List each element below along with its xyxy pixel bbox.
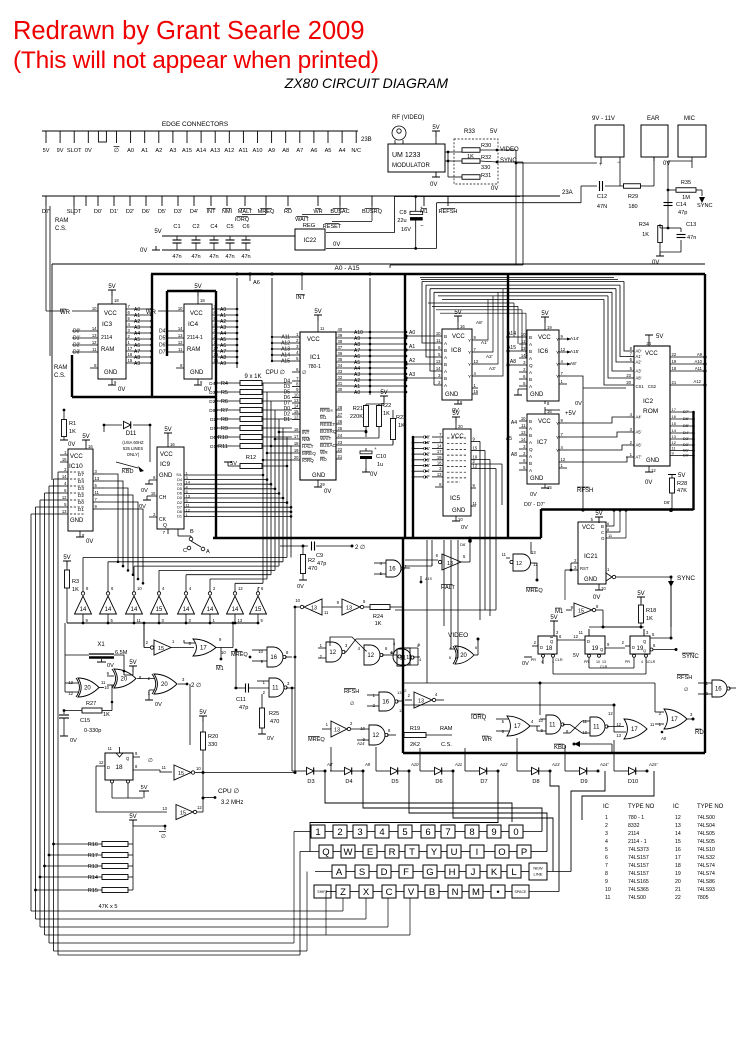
svg-text:1K: 1K [375, 621, 382, 627]
svg-text:D1: D1 [78, 507, 84, 513]
svg-text:0V: 0V [333, 242, 340, 248]
svg-text:M1: M1 [216, 666, 224, 672]
svg-text:VCC: VCC [538, 419, 551, 425]
svg-text:16: 16 [675, 847, 681, 853]
svg-text:9V - 11V: 9V - 11V [592, 116, 615, 122]
svg-text:12: 12 [402, 688, 407, 693]
svg-text:780 - 1: 780 - 1 [628, 815, 644, 821]
svg-text:IC3: IC3 [102, 321, 113, 328]
svg-text:13: 13 [521, 346, 526, 351]
svg-text:RAM: RAM [440, 726, 453, 732]
svg-text:CS2: CS2 [648, 384, 657, 389]
svg-text:4: 4 [605, 839, 608, 845]
svg-text:18: 18 [672, 366, 677, 371]
svg-text:A6': A6' [636, 443, 642, 448]
svg-text:47n: 47n [172, 254, 181, 260]
svg-text:RAM: RAM [55, 218, 68, 224]
svg-text:Y: Y [556, 337, 559, 342]
svg-text:A0: A0 [660, 736, 667, 741]
svg-text:C9: C9 [316, 553, 323, 559]
svg-text:74LS157: 74LS157 [628, 855, 649, 861]
svg-text:VCC: VCC [451, 434, 464, 440]
svg-text:S/L: S/L [176, 473, 182, 477]
svg-text:19: 19 [592, 646, 599, 652]
svg-text:R1: R1 [69, 421, 76, 427]
svg-text:14: 14 [207, 607, 214, 613]
svg-text:15: 15 [156, 607, 163, 613]
svg-text:D3': D3' [73, 350, 80, 356]
svg-text:D7': D7' [683, 409, 689, 414]
svg-text:C.S.: C.S. [55, 226, 67, 232]
svg-text:CPU ∅: CPU ∅ [218, 788, 240, 795]
svg-text:1K: 1K [72, 587, 79, 593]
svg-text:11: 11 [92, 347, 97, 352]
svg-text:5V: 5V [541, 311, 548, 317]
svg-text:R13: R13 [88, 864, 98, 870]
svg-text:NMI: NMI [302, 437, 310, 442]
svg-text:SLOT: SLOT [67, 148, 82, 154]
svg-text:D5': D5' [159, 336, 166, 342]
svg-text:12: 12 [399, 708, 404, 713]
svg-text:11: 11 [400, 656, 407, 662]
svg-text:D6': D6' [683, 416, 689, 421]
svg-text:20: 20 [121, 677, 128, 683]
svg-text:R30: R30 [481, 143, 491, 149]
svg-text:VCC: VCC [70, 454, 83, 460]
svg-text:20: 20 [460, 653, 467, 659]
svg-text:A14: A14 [356, 741, 365, 746]
svg-text:0V: 0V [70, 738, 77, 744]
svg-text:19: 19 [437, 455, 442, 460]
svg-text:D4: D4 [78, 479, 84, 485]
svg-text:12: 12 [92, 340, 97, 345]
svg-text:19: 19 [675, 871, 681, 877]
svg-text:B: B [190, 529, 194, 535]
svg-text:R34: R34 [639, 222, 649, 228]
svg-text:13: 13 [92, 333, 97, 338]
svg-text:11: 11 [272, 686, 279, 692]
svg-text:4: 4 [379, 827, 384, 838]
svg-text:R33: R33 [464, 129, 476, 135]
svg-text:15: 15 [294, 409, 299, 414]
svg-text:14: 14 [294, 404, 299, 409]
svg-text:3: 3 [605, 831, 608, 837]
svg-text:6: 6 [425, 827, 430, 838]
svg-text:10: 10 [92, 306, 97, 311]
svg-text:KBD: KBD [122, 469, 134, 475]
svg-text:A6: A6 [253, 280, 260, 286]
svg-text:0V: 0V [645, 480, 652, 486]
svg-text:0V: 0V [430, 182, 437, 188]
svg-text:30: 30 [338, 387, 343, 392]
svg-text:B: B [601, 524, 604, 529]
svg-text:R4: R4 [221, 381, 228, 387]
svg-text:PR: PR [584, 660, 589, 664]
svg-text:∅: ∅ [161, 833, 166, 840]
svg-text:A3': A3' [489, 366, 496, 371]
svg-text:74LS86: 74LS86 [697, 879, 715, 885]
svg-text:RFSH: RFSH [677, 675, 692, 681]
svg-text:47N: 47N [597, 204, 607, 210]
svg-text:R12: R12 [246, 455, 256, 461]
svg-text:A2': A2' [636, 360, 642, 365]
svg-text:A9: A9 [268, 148, 275, 154]
svg-text:C10: C10 [376, 454, 386, 460]
svg-text:15: 15 [214, 358, 219, 363]
svg-text:0V: 0V [68, 442, 75, 448]
svg-text:IC10: IC10 [69, 463, 83, 470]
svg-text:13: 13 [162, 806, 167, 811]
svg-text:BUSRQ: BUSRQ [320, 429, 337, 434]
svg-text:11: 11 [593, 725, 600, 731]
svg-text:REG: REG [303, 223, 316, 229]
svg-text:0V: 0V [141, 488, 148, 494]
svg-text:13: 13 [334, 728, 340, 734]
svg-text:IORQ: IORQ [471, 715, 487, 721]
svg-text:0: 0 [513, 827, 518, 838]
svg-text:R22: R22 [381, 403, 391, 409]
svg-text:WR: WR [482, 737, 493, 743]
svg-text:RD: RD [695, 730, 704, 736]
svg-text:7: 7 [605, 863, 608, 869]
svg-text:5V: 5V [43, 148, 50, 154]
svg-text:CLR: CLR [600, 665, 608, 669]
svg-text:12: 12 [367, 653, 374, 659]
svg-text:5V: 5V [82, 434, 89, 440]
svg-text:2114-1: 2114-1 [187, 335, 203, 341]
svg-text:11: 11 [320, 326, 325, 331]
svg-text:CPU ∅: CPU ∅ [265, 369, 285, 376]
svg-text:12: 12 [561, 457, 566, 462]
svg-text:19: 19 [547, 325, 552, 330]
svg-text:15: 15 [158, 646, 164, 652]
svg-text:A8': A8' [636, 376, 642, 381]
svg-text:A12: A12 [499, 762, 508, 767]
svg-text:Y: Y [468, 362, 471, 367]
svg-text:12: 12 [99, 760, 104, 765]
svg-text:10: 10 [178, 306, 183, 311]
svg-text:K: K [491, 867, 498, 878]
svg-text:D5: D5 [391, 779, 398, 785]
svg-text:9: 9 [491, 827, 496, 838]
svg-text:C13: C13 [686, 222, 696, 228]
svg-text:•: • [496, 887, 499, 898]
svg-text:C2: C2 [192, 224, 199, 230]
svg-text:INT: INT [302, 430, 310, 435]
svg-text:13: 13 [68, 680, 73, 685]
svg-text:IC: IC [673, 804, 680, 810]
svg-text:IC22: IC22 [304, 238, 317, 244]
svg-text:5V: 5V [194, 284, 201, 290]
svg-text:D6': D6' [664, 500, 670, 505]
svg-text:R23: R23 [396, 415, 406, 421]
svg-text:11: 11 [436, 338, 441, 343]
svg-text:D5: D5 [177, 487, 182, 491]
svg-text:18: 18 [294, 441, 299, 446]
svg-text:1M: 1M [682, 195, 690, 201]
svg-text:M1: M1 [320, 415, 327, 420]
svg-text:25: 25 [338, 426, 343, 431]
svg-text:X1: X1 [97, 642, 105, 648]
svg-text:RST: RST [580, 566, 589, 571]
svg-text:Q: Q [163, 523, 167, 529]
svg-text:0V: 0V [522, 661, 529, 667]
svg-text:IC9: IC9 [160, 461, 171, 468]
svg-text:R2: R2 [308, 558, 315, 564]
svg-text:D: D [540, 645, 543, 650]
svg-text:20: 20 [626, 380, 631, 385]
svg-text:R29: R29 [628, 194, 638, 200]
svg-text:N: N [452, 887, 459, 898]
svg-text:R10: R10 [218, 435, 228, 441]
svg-text:GND: GND [530, 392, 544, 398]
svg-text:CLR: CLR [555, 658, 563, 662]
svg-text:A1: A1 [409, 344, 415, 350]
svg-text:A0': A0' [636, 349, 642, 354]
svg-text:A5': A5' [636, 430, 642, 435]
svg-text:15: 15 [62, 457, 67, 462]
svg-text:13: 13 [311, 606, 317, 612]
svg-text:31: 31 [338, 381, 343, 386]
svg-text:13: 13 [346, 606, 352, 612]
svg-text:WAIT: WAIT [320, 436, 332, 441]
svg-text:5V: 5V [199, 710, 206, 716]
svg-text:VCC: VCC [307, 337, 320, 343]
svg-text:0V: 0V [663, 161, 670, 167]
svg-text:SYNC: SYNC [697, 203, 713, 209]
svg-text:36: 36 [338, 351, 343, 356]
svg-text:11: 11 [650, 722, 655, 727]
svg-text:15: 15 [255, 607, 262, 613]
svg-text:10: 10 [521, 416, 526, 421]
svg-text:7805: 7805 [697, 895, 709, 901]
svg-text:GND: GND [445, 392, 459, 398]
svg-text:D5': D5' [683, 423, 689, 428]
svg-text:B: B [529, 349, 532, 354]
svg-text:Y: Y [556, 362, 559, 367]
svg-text:B: B [529, 419, 532, 424]
svg-text:0V: 0V [652, 260, 659, 266]
svg-text:R28: R28 [677, 481, 687, 487]
svg-text:Y: Y [468, 350, 471, 355]
svg-text:C.S.: C.S. [54, 373, 66, 379]
svg-text:A14': A14' [570, 336, 579, 341]
svg-text:TYPE NO: TYPE NO [628, 804, 655, 810]
svg-text:E: E [367, 847, 373, 858]
svg-text:A4: A4 [511, 420, 517, 426]
svg-text:F: F [403, 867, 409, 878]
svg-text:INT: INT [206, 209, 216, 215]
svg-text:19: 19 [294, 448, 299, 453]
svg-text:PR: PR [625, 660, 630, 664]
svg-text:RAM: RAM [187, 347, 200, 353]
svg-text:A11: A11 [695, 366, 703, 371]
svg-text:17: 17 [214, 346, 219, 351]
svg-text:17: 17 [128, 346, 133, 351]
svg-text:P: P [521, 847, 527, 858]
svg-text:1K: 1K [383, 411, 390, 417]
svg-text:REFSH: REFSH [439, 209, 458, 215]
svg-text:A9: A9 [220, 361, 226, 367]
svg-text:CLR: CLR [648, 660, 656, 664]
svg-text:A2': A2' [486, 354, 493, 359]
svg-text:RESET: RESET [323, 224, 342, 230]
svg-text:X: X [363, 887, 370, 898]
svg-text:34: 34 [338, 363, 343, 368]
svg-text:11: 11 [605, 895, 610, 901]
svg-text:D10: D10 [628, 779, 638, 785]
svg-text:ROM: ROM [643, 408, 658, 415]
svg-text:LINE: LINE [534, 872, 543, 877]
svg-text:33: 33 [338, 369, 343, 374]
svg-text:WR: WR [313, 209, 322, 215]
svg-text:5V: 5V [637, 591, 644, 597]
svg-text:13: 13 [436, 359, 441, 364]
svg-text:R21: R21 [353, 406, 363, 412]
svg-text:EAR: EAR [647, 116, 660, 122]
svg-text:A10: A10 [253, 148, 263, 154]
svg-text:10: 10 [521, 332, 526, 337]
svg-text:525 LINES: 525 LINES [123, 446, 143, 451]
svg-text:A12: A12 [224, 148, 234, 154]
svg-text:A: A [206, 549, 210, 555]
svg-text:5V: 5V [595, 511, 602, 517]
svg-text:D1': D1' [73, 336, 80, 342]
svg-text:15: 15 [180, 811, 186, 817]
svg-text:1u: 1u [377, 462, 383, 468]
svg-text:A7': A7' [636, 455, 642, 460]
svg-text:47n: 47n [241, 254, 250, 260]
svg-text:C14: C14 [676, 202, 686, 208]
svg-text:D1: D1 [177, 515, 182, 519]
svg-text:VCC: VCC [582, 525, 595, 531]
svg-text:R11: R11 [218, 444, 228, 450]
svg-text:A8': A8' [570, 361, 577, 366]
svg-text:R18: R18 [646, 608, 656, 614]
svg-text:D3: D3 [78, 486, 84, 492]
svg-text:8: 8 [469, 827, 474, 838]
svg-text:12: 12 [62, 495, 67, 500]
svg-text:(USA 60HZ: (USA 60HZ [122, 440, 144, 445]
svg-text:35: 35 [338, 357, 343, 362]
svg-text:0V: 0V [530, 492, 537, 498]
svg-text:D6: D6 [177, 492, 182, 496]
svg-text:5V: 5V [432, 125, 439, 131]
svg-text:16: 16 [715, 687, 722, 693]
svg-text:GND: GND [646, 458, 660, 464]
svg-text:A12: A12 [694, 379, 702, 384]
svg-text:GND: GND [530, 476, 544, 482]
svg-text:MALT: MALT [238, 209, 253, 215]
svg-text:13: 13 [238, 618, 243, 623]
svg-text:D: D [381, 867, 388, 878]
svg-text:11: 11 [162, 765, 167, 770]
svg-text:15: 15 [578, 609, 584, 615]
svg-text:15: 15 [675, 839, 681, 845]
svg-text:D4': D4' [683, 430, 689, 435]
svg-text:13: 13 [703, 691, 708, 696]
svg-text:17: 17 [671, 717, 678, 723]
svg-text:WR: WR [320, 450, 328, 455]
svg-text:470: 470 [270, 719, 279, 725]
svg-text:Y: Y [468, 374, 471, 379]
svg-text:C: C [601, 530, 604, 535]
svg-text:10: 10 [294, 393, 299, 398]
svg-text:D6': D6' [460, 542, 466, 547]
svg-text:VCC: VCC [645, 351, 658, 357]
svg-text:13: 13 [582, 730, 587, 735]
svg-text:11: 11 [502, 552, 507, 557]
svg-text:TYPE NO: TYPE NO [697, 804, 724, 810]
svg-text:C: C [386, 887, 393, 898]
svg-text:D4': D4' [190, 209, 198, 215]
svg-text:17: 17 [294, 434, 299, 439]
svg-text:18: 18 [200, 298, 205, 303]
svg-text:A15': A15' [648, 762, 657, 767]
svg-text:R17: R17 [88, 853, 98, 859]
svg-text:22u: 22u [397, 218, 406, 224]
svg-text:17: 17 [514, 724, 521, 730]
svg-text:D2': D2' [73, 343, 80, 349]
svg-text:16: 16 [382, 700, 389, 706]
svg-text:R25: R25 [269, 711, 279, 717]
svg-text:15: 15 [474, 389, 479, 394]
svg-text:0V: 0V [118, 387, 125, 393]
svg-text:14: 14 [183, 607, 190, 613]
svg-text:GND: GND [104, 370, 118, 376]
svg-text:18: 18 [437, 461, 442, 466]
svg-text:W: W [344, 847, 353, 858]
svg-text:20: 20 [675, 879, 681, 885]
svg-text:21: 21 [338, 454, 343, 459]
svg-text:0V: 0V [140, 248, 147, 254]
svg-text:RD: RD [284, 209, 292, 215]
svg-text:O: O [498, 847, 505, 858]
svg-text:CS1: CS1 [636, 384, 645, 389]
svg-text:R: R [389, 847, 396, 858]
svg-text:M: M [472, 887, 480, 898]
svg-text:A14: A14 [196, 148, 206, 154]
svg-text:14: 14 [436, 366, 441, 371]
svg-text:14: 14 [62, 474, 67, 479]
svg-text:A2: A2 [409, 358, 415, 364]
svg-text:5V: 5V [108, 284, 115, 290]
svg-text:37: 37 [338, 345, 343, 350]
svg-text:Y: Y [468, 338, 471, 343]
svg-text:A13: A13 [551, 762, 560, 767]
svg-text:Y: Y [556, 421, 559, 426]
svg-text:IORQ: IORQ [235, 217, 250, 223]
svg-text:5V: 5V [63, 555, 70, 561]
svg-text:D0': D0' [94, 209, 102, 215]
svg-text:B: B [529, 377, 532, 382]
svg-text:11: 11 [549, 723, 556, 729]
svg-text:24: 24 [646, 341, 651, 346]
svg-text:R9: R9 [221, 426, 228, 432]
svg-text:5V: 5V [141, 785, 148, 791]
svg-text:D0': D0' [683, 453, 689, 458]
svg-text:13: 13 [418, 699, 424, 705]
svg-text:Y: Y [556, 435, 559, 440]
svg-text:20: 20 [458, 424, 463, 429]
svg-text:47n: 47n [687, 235, 696, 241]
svg-text:U: U [451, 847, 458, 858]
svg-text:D5': D5' [158, 209, 166, 215]
svg-text:15: 15 [672, 421, 677, 426]
svg-text:5V: 5V [656, 334, 663, 340]
svg-text:A9: A9 [697, 352, 703, 357]
svg-text:D2: D2 [78, 493, 84, 499]
